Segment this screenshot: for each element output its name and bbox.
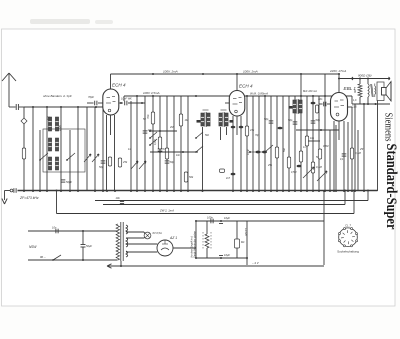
IF transformer 2 coil b <box>299 100 302 113</box>
pilot lamp <box>144 232 151 239</box>
resistor R14 <box>311 162 322 173</box>
wire 10p <box>308 137 320 141</box>
label t3 <box>291 171 296 174</box>
svg-text:Siemens: Siemens <box>383 113 394 142</box>
svg-text:AZ 1: AZ 1 <box>169 236 177 240</box>
svg-text:70p: 70p <box>255 134 260 137</box>
wire v78 <box>77 107 79 191</box>
coil L1a <box>48 117 51 131</box>
label ZF 473kHz <box>19 196 39 200</box>
wire v137 <box>136 96 138 191</box>
label 100k 2mA a <box>163 70 178 74</box>
label t12 <box>205 134 210 137</box>
dropper resistor <box>203 221 211 258</box>
wire aerial node <box>24 107 104 191</box>
label EBL1 <box>344 86 357 91</box>
svg-text:2M: 2M <box>169 126 173 129</box>
svg-text:ZF=473 kHz: ZF=473 kHz <box>19 196 39 200</box>
meter M1 <box>235 221 246 258</box>
transformer TR primary <box>116 224 119 260</box>
output HT rail <box>324 74 326 96</box>
label 21_0 <box>352 106 357 109</box>
tube U3 EBL1 <box>331 93 348 122</box>
label 1500 <box>58 125 62 131</box>
capacitor C ret <box>116 196 125 204</box>
bus dots mid <box>130 190 242 192</box>
svg-text:90→: 90→ <box>40 255 46 259</box>
coil L2b <box>55 138 58 151</box>
wire v265 <box>264 96 266 191</box>
resistor R ant <box>22 148 25 159</box>
svg-text:50p: 50p <box>170 160 175 164</box>
junction dots aerial wire <box>32 106 97 108</box>
switch S5 <box>264 145 273 153</box>
label t1 <box>247 150 250 155</box>
wire v153 <box>152 96 154 191</box>
resistor R15 <box>305 136 308 146</box>
wire v40 <box>39 130 41 191</box>
IFT2 cap b <box>311 102 316 105</box>
svg-text:6V 0,5A: 6V 0,5A <box>153 231 162 235</box>
wire v103 <box>102 107 104 191</box>
capacitor blobs <box>278 127 302 168</box>
wire v277 <box>276 96 278 191</box>
return wire 4 <box>247 220 324 222</box>
wire v47 <box>46 107 48 191</box>
label t14 <box>359 148 365 151</box>
chassis bus <box>9 188 378 193</box>
capacitor C20 <box>264 117 273 123</box>
tube U3 pins <box>334 121 344 191</box>
resistor R12 <box>287 157 290 168</box>
svg-text:300: 300 <box>47 116 51 121</box>
supply wire plus <box>195 220 247 222</box>
svg-text:25k: 25k <box>122 160 128 164</box>
tube U1 anode wire <box>119 97 145 106</box>
tube U1 ECH4 <box>103 89 119 115</box>
rectifier tube AZ1 <box>157 240 173 256</box>
tube U2 top wire <box>236 73 238 91</box>
svg-text:50µF: 50µF <box>86 244 92 248</box>
capacitor C pad <box>61 180 73 184</box>
svg-text:M1: M1 <box>241 240 245 244</box>
wire v289 <box>288 96 290 191</box>
svg-text:50p: 50p <box>264 117 269 121</box>
svg-text:10n: 10n <box>318 97 323 101</box>
svg-text:ZW 2, 1mA: ZW 2, 1mA <box>159 209 174 213</box>
wire v87 <box>86 107 88 191</box>
return drop <box>323 190 325 265</box>
svg-text:0,3M: 0,3M <box>323 145 328 148</box>
label 900 ohm <box>358 74 371 78</box>
wire v188 <box>187 96 189 191</box>
IFT1 core <box>205 112 206 127</box>
svg-text:BuF 100 mA: BuF 100 mA <box>303 90 317 93</box>
speaker LS driver <box>382 88 387 96</box>
label ECH4 no2 <box>239 84 253 89</box>
pilot lamp wires <box>126 232 145 238</box>
label t6 <box>316 156 319 159</box>
tube U2 ECH4 <box>229 91 245 117</box>
capacitor C103 <box>99 161 105 169</box>
svg-text:Standard-Super: Standard-Super <box>383 144 399 230</box>
label 10n EBL <box>303 90 323 101</box>
resistor R16 <box>350 148 361 159</box>
band switch box <box>43 129 85 172</box>
svg-text:50p: 50p <box>316 118 321 122</box>
capacitor C30 <box>342 154 347 156</box>
svg-text:10p: 10p <box>310 137 315 140</box>
svg-text:47k: 47k <box>250 128 255 132</box>
scan smudge 2 <box>95 20 113 24</box>
capacitor C12 <box>143 128 153 133</box>
svg-text:50k: 50k <box>189 175 194 179</box>
wire v61 <box>60 107 62 191</box>
IFT1 cap b <box>230 120 234 123</box>
anode supply rail <box>111 73 341 89</box>
label t4 <box>267 164 273 167</box>
svg-text:0,5M: 0,5M <box>291 171 296 174</box>
supply drop wire <box>246 221 248 265</box>
electrolytic C16b <box>219 253 230 259</box>
wire v301 <box>300 74 302 191</box>
svg-text:Sockelschaltung: Sockelschaltung <box>337 250 359 254</box>
resistor R10 <box>245 126 255 136</box>
resistor R IFT2 <box>316 105 319 113</box>
svg-text:16µF: 16µF <box>224 216 230 220</box>
trimmer T2 <box>92 154 99 162</box>
IF transformer 2 coil a <box>293 100 296 113</box>
resistor R6 <box>165 148 168 159</box>
label CL7 <box>345 224 351 228</box>
wire v313 <box>312 96 314 191</box>
electrolytic C50 <box>81 230 93 261</box>
svg-text:50pF: 50pF <box>66 180 72 184</box>
output transformer core <box>371 84 374 97</box>
return wire 1b <box>102 190 346 205</box>
output top wire <box>338 77 390 80</box>
capacitor ant diamond <box>21 118 27 124</box>
switch S3b <box>195 146 203 153</box>
output transformer primary <box>368 79 369 105</box>
tube U3 top wire <box>338 74 340 93</box>
svg-text:10n: 10n <box>116 196 121 200</box>
wire v33 <box>32 107 34 191</box>
trimmer T1 <box>84 154 91 162</box>
socket pins <box>338 228 357 247</box>
wire v358 <box>357 130 359 191</box>
transformer TR sec 2 <box>126 238 128 247</box>
svg-text:700: 700 <box>146 114 150 119</box>
switch mains <box>40 255 61 261</box>
resistor R104 <box>118 158 128 167</box>
transformer TR sec 1 <box>126 225 128 234</box>
label WM 085mA <box>250 92 268 96</box>
tube U1 pins <box>107 115 115 191</box>
wire v167 <box>166 96 168 191</box>
tube U2 pins <box>231 116 244 191</box>
wire grid row1 <box>149 130 177 132</box>
bottom return wire <box>107 265 324 267</box>
svg-text:4n7: 4n7 <box>226 177 231 180</box>
wire v247 <box>246 96 248 191</box>
brand Siemens <box>383 113 394 142</box>
resistor R5 700 <box>146 112 155 124</box>
ground chassis <box>2 191 9 205</box>
switch S1a <box>39 153 48 161</box>
svg-text:100V, 2mA: 100V, 2mA <box>163 70 178 74</box>
rectifier wires <box>126 244 157 252</box>
potentiometer P1 <box>303 167 314 178</box>
svg-text:21,0: 21,0 <box>352 106 357 109</box>
label AZ1 <box>169 236 177 240</box>
wire v325 <box>324 96 326 191</box>
svg-text:100V, 2mA: 100V, 2mA <box>243 70 258 74</box>
switch S3a <box>195 132 203 139</box>
resistor R106 <box>184 172 194 182</box>
svg-text:1500: 1500 <box>58 125 62 131</box>
svg-text:− 4 V: − 4 V <box>252 261 260 265</box>
IF transformer 1 coil b <box>207 113 210 126</box>
label 213V <box>244 228 248 237</box>
svg-text:16µF: 16µF <box>224 253 230 257</box>
capacitor C mains <box>52 226 58 234</box>
svg-text:50p: 50p <box>288 118 293 122</box>
wire v336 <box>335 125 337 191</box>
svg-text:220V, 27mA: 220V, 27mA <box>329 69 346 73</box>
wire v253 <box>252 96 254 191</box>
label 100k 2mA b <box>243 70 258 74</box>
wire v355 <box>354 104 356 192</box>
svg-text:100n: 100n <box>207 216 213 220</box>
IF transformer 1 coil a <box>201 113 204 126</box>
label 300 <box>47 116 51 121</box>
label ECH4 no1 <box>112 83 126 88</box>
switch S2a <box>149 132 157 139</box>
label t10 <box>176 154 181 157</box>
tube U2 grid stub <box>225 102 229 104</box>
label 220V 27mA <box>329 69 346 73</box>
label t5 <box>303 146 306 149</box>
svg-text:0,3M: 0,3M <box>154 140 157 145</box>
label 70pF <box>88 95 94 99</box>
label minus4V <box>252 261 260 265</box>
wire v174 <box>173 96 175 191</box>
model Standard-Super <box>383 144 399 230</box>
return wire 2 <box>56 190 356 214</box>
resistor R103 <box>108 157 111 166</box>
label t7 <box>255 134 260 137</box>
svg-text:ECH 4: ECH 4 <box>239 84 253 89</box>
label t9 <box>169 126 173 129</box>
svg-text:CL 7: CL 7 <box>345 224 351 228</box>
electrolytic C16a <box>219 216 230 224</box>
coil L1b <box>55 117 58 131</box>
svg-text:ohne Bandein. d. ±pF: ohne Bandein. d. ±pF <box>43 94 72 98</box>
IFT2 cap a <box>289 106 293 109</box>
wire v145 <box>144 96 146 191</box>
svg-text:25n: 25n <box>267 164 273 167</box>
rectifier output wire <box>173 221 196 258</box>
wire v283 <box>282 96 284 191</box>
capacitor C107 <box>220 169 236 180</box>
bus dots out <box>333 190 353 192</box>
trimmer T3 <box>131 161 138 169</box>
IF transformer 1 coil d <box>225 113 228 126</box>
svg-text:3Ω: 3Ω <box>354 90 357 93</box>
coil L3a <box>48 157 51 170</box>
label 1_0 <box>353 99 357 102</box>
svg-text:0,1M: 0,1M <box>247 150 250 155</box>
transformer bottom stub <box>120 261 122 267</box>
output bottom wire <box>352 103 390 105</box>
svg-text:50p: 50p <box>99 165 104 169</box>
resistor R7 1M <box>179 114 189 126</box>
wire v307 <box>306 96 308 191</box>
svg-text:Gerät Netzstecker ziehen: Gerät Netzstecker ziehen <box>194 230 197 258</box>
wire v319 <box>318 96 320 191</box>
bottom return arrow <box>107 264 112 268</box>
svg-text:100V 4,5mA: 100V 4,5mA <box>143 91 160 95</box>
label Sockelschaltung <box>337 250 359 254</box>
switch S2b <box>149 139 157 146</box>
note ohne Bandeinstellung <box>43 94 72 98</box>
wire v160 <box>159 96 161 191</box>
scan smudge 1 <box>30 19 90 24</box>
socket legend CL7 <box>339 228 358 247</box>
IFT1 stubs <box>203 127 227 191</box>
return wire 1 <box>94 190 369 201</box>
AVC line <box>296 129 339 131</box>
coil L2a <box>48 138 51 151</box>
resistor R17 <box>318 145 328 159</box>
IFT1 cap a <box>197 120 201 123</box>
potentiometer P2 <box>317 171 327 181</box>
capacitor C105 <box>165 160 175 164</box>
capacitor C13 <box>158 147 166 151</box>
label t8 <box>143 118 146 121</box>
svg-text:0,1M: 0,1M <box>316 165 323 169</box>
wire v295 <box>294 96 296 191</box>
wire v259 <box>258 96 260 191</box>
bus dots right <box>246 190 337 192</box>
resistor R13 <box>299 151 302 162</box>
svg-text:NSW: NSW <box>29 245 37 249</box>
label ZW <box>159 209 174 213</box>
capacitor C100n <box>207 216 213 224</box>
svg-text:70pF: 70pF <box>88 95 94 99</box>
IFT1 top wires <box>203 109 227 111</box>
svg-text:W.M. 0,85mA: W.M. 0,85mA <box>250 92 268 96</box>
speaker LS frame <box>377 82 384 101</box>
wire v364 <box>363 103 365 192</box>
trimmer T4 <box>139 161 146 169</box>
transformer TR sec 3 <box>126 251 128 257</box>
svg-text:ECH 4: ECH 4 <box>112 83 126 88</box>
mains wire bottom <box>28 259 118 261</box>
IF transformer 1 coil c <box>219 113 222 126</box>
svg-text:10n: 10n <box>176 154 181 157</box>
mains wire top <box>28 230 118 232</box>
screen rail <box>124 95 352 104</box>
label t2 <box>283 147 286 152</box>
wire v131 <box>130 101 132 191</box>
wire v70 <box>69 130 71 191</box>
output transformer secondary <box>375 84 376 98</box>
wire v95 <box>94 107 96 191</box>
wire grid row2 <box>150 151 198 153</box>
IFT2 core <box>297 99 298 114</box>
svg-text:10n: 10n <box>52 226 57 230</box>
label 100V 45mA <box>143 91 160 95</box>
speaker LS cone <box>386 82 391 102</box>
svg-text:5k6: 5k6 <box>205 134 210 137</box>
speaker feed wire <box>377 101 379 192</box>
capacitor C22 <box>311 118 321 123</box>
resistor R105 <box>154 137 162 149</box>
label NSW <box>29 245 37 249</box>
capacitor C106 <box>249 151 267 154</box>
wire v271 <box>270 96 272 191</box>
label t11 <box>128 148 131 151</box>
warning note <box>191 230 197 258</box>
wire v352 <box>347 107 352 191</box>
switch S1b <box>66 153 75 161</box>
antenna series capacitor <box>9 104 24 110</box>
bus dots left <box>23 190 116 192</box>
wire v348 <box>347 122 349 192</box>
label t13 <box>340 158 344 161</box>
svg-text:10nF WK: 10nF WK <box>121 97 132 101</box>
field coil 900ohm <box>354 79 362 105</box>
svg-text:900Ω (36): 900Ω (36) <box>358 74 371 78</box>
transformer TR core <box>121 222 123 261</box>
antenna <box>2 73 16 107</box>
IFT1 core 2 <box>223 112 224 127</box>
tube U3 grid cap <box>319 102 331 107</box>
label 6V <box>153 231 162 235</box>
wire v181 <box>180 96 182 191</box>
supply wire minus <box>195 257 247 259</box>
tube U1 grid cap <box>87 101 103 106</box>
resistor R11 <box>275 147 278 158</box>
capacitor C21 <box>288 118 297 124</box>
wire v330 <box>329 130 331 191</box>
coil L3b <box>55 157 58 170</box>
